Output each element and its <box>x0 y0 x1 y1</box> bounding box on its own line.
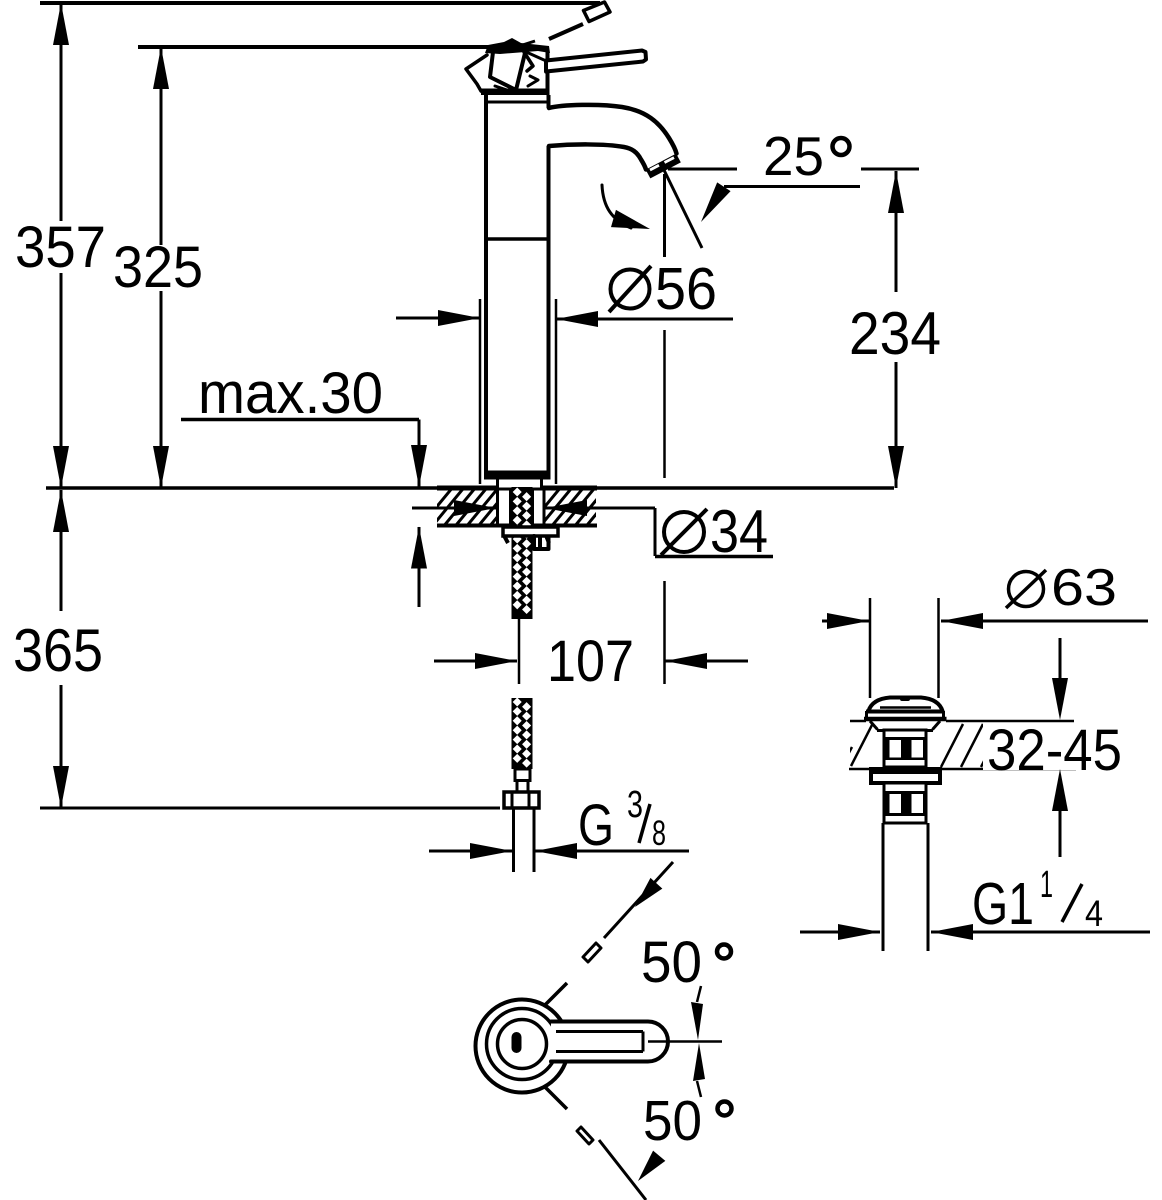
drain pop-up cap dome <box>869 698 943 712</box>
dimension line 357 <box>60 3 63 221</box>
drain tailpipe <box>882 823 885 951</box>
dia 34 leader to label <box>654 508 657 556</box>
G 3/8 arrows <box>429 850 512 853</box>
lever axis line <box>648 1040 722 1043</box>
dia 56 arrows <box>396 317 480 320</box>
top view outer ring <box>476 1000 569 1093</box>
countertop top surface line <box>46 486 496 490</box>
spout angle slant line <box>663 168 702 248</box>
svg-text:G: G <box>578 793 614 858</box>
top view lever <box>551 1022 668 1062</box>
svg-text:107: 107 <box>547 629 634 694</box>
hose nut <box>504 792 539 808</box>
top view middle ring <box>487 1009 558 1080</box>
lower 50 deg swing line <box>544 1086 567 1109</box>
drain deck band lines <box>850 720 866 723</box>
spout <box>549 105 677 154</box>
label dia 63 <box>1009 572 1044 607</box>
horseshoe washer under deck <box>503 527 558 536</box>
25 deg leader line <box>724 185 860 188</box>
mounting washers in deck hole <box>498 489 511 525</box>
dimension 32-45 arrows <box>1059 638 1062 680</box>
faucet body column <box>484 95 488 479</box>
svg-text:63: 63 <box>1051 559 1117 617</box>
dimension line 234 <box>895 171 898 292</box>
25 deg reference line <box>668 168 737 171</box>
height reference line 357 top <box>40 1 600 5</box>
svg-text:8: 8 <box>652 814 666 853</box>
dia 63 arrows <box>822 620 869 623</box>
handle hub sketch - outline <box>466 55 487 91</box>
max.30 leader line <box>181 418 419 422</box>
svg-text:50: 50 <box>643 1089 702 1153</box>
svg-text:1: 1 <box>1040 864 1053 906</box>
drain body lower slotted section <box>884 783 926 823</box>
raised lever dash near hub <box>521 41 535 46</box>
height reference line 325 top <box>138 45 489 49</box>
32-45 text halo <box>983 723 1127 770</box>
hose center line upper <box>518 619 521 684</box>
drain extension lines <box>869 598 872 698</box>
rotation arc arrow <box>602 185 631 228</box>
dimension line 365 <box>60 490 63 611</box>
handle hub sketch - bottom bar <box>481 89 550 96</box>
lever handle <box>546 51 646 72</box>
drain body upper slotted section <box>884 730 926 767</box>
svg-text:4: 4 <box>1085 893 1103 934</box>
handle hub sketch - top black band <box>485 38 550 54</box>
svg-text:G1: G1 <box>972 871 1034 937</box>
drain deck band hatching <box>845 723 873 766</box>
svg-text:365: 365 <box>13 617 103 684</box>
swing angle flag lower <box>693 1043 705 1081</box>
top view inner ring <box>498 1020 547 1069</box>
threaded shank with crosshatch <box>512 487 533 619</box>
max.30 lower arrow <box>411 527 427 569</box>
top view handle slot <box>512 1032 522 1053</box>
countertop slab top edge thick <box>437 486 496 491</box>
raised lever tip outline <box>584 2 611 22</box>
hose braided segment <box>512 698 533 769</box>
raised lever dash middle <box>549 24 583 39</box>
hose connection tube <box>512 808 515 872</box>
svg-text:357: 357 <box>15 215 106 280</box>
faucet shank through deck <box>496 479 499 489</box>
svg-text:max.30: max.30 <box>198 361 383 426</box>
upper 50 deg swing line <box>544 983 567 1006</box>
dia 34 arrows <box>412 507 496 510</box>
spout outlet aerator face <box>648 158 679 174</box>
drain cap skirt <box>870 721 878 730</box>
countertop cross-section hatching (left slab) <box>420 487 545 527</box>
label dia 34 <box>664 512 704 552</box>
dimension 107 arrows <box>434 660 517 663</box>
label dia 56 <box>611 270 650 309</box>
spout outlet center line <box>663 174 666 257</box>
drain flange under deck <box>871 769 940 783</box>
svg-text:3: 3 <box>627 784 643 826</box>
mounting claw <box>534 536 549 549</box>
svg-text:56: 56 <box>655 256 717 322</box>
svg-text:234: 234 <box>849 300 941 367</box>
extension lines for dia 56 <box>479 299 482 484</box>
G 1 1/4 arrows <box>800 931 880 934</box>
svg-text:325: 325 <box>113 235 203 300</box>
hose end reference line <box>40 807 500 810</box>
handle hub right edge <box>546 50 550 91</box>
svg-text:32-45: 32-45 <box>987 718 1122 783</box>
countertop slab bottom edge <box>437 524 597 528</box>
dimension line 325 <box>160 47 163 245</box>
hose ferrule steps <box>515 769 530 781</box>
swing angle flag upper <box>691 1002 703 1040</box>
svg-text:25: 25 <box>763 125 824 187</box>
svg-text:34: 34 <box>710 498 768 565</box>
svg-text:50: 50 <box>641 930 702 995</box>
